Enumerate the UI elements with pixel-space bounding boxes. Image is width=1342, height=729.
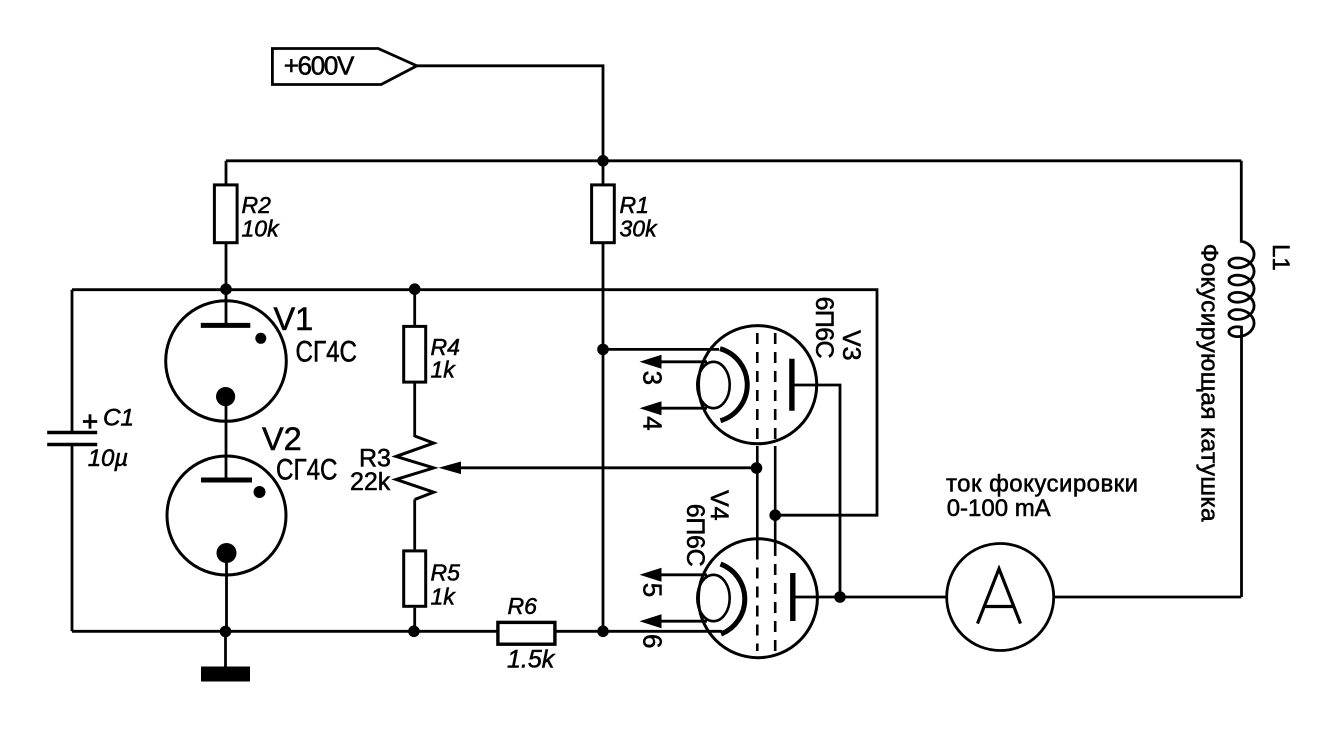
svg-text:V1: V1 bbox=[274, 301, 314, 337]
svg-text:СГ4С: СГ4С bbox=[276, 454, 338, 487]
svg-text:V3: V3 bbox=[837, 330, 865, 361]
svg-text:4: 4 bbox=[638, 416, 668, 430]
svg-text:0-100 mA: 0-100 mA bbox=[947, 495, 1051, 522]
svg-text:L1: L1 bbox=[1267, 244, 1294, 271]
svg-text:СГ4С: СГ4С bbox=[296, 336, 358, 369]
svg-text:1.5k: 1.5k bbox=[507, 646, 556, 674]
svg-text:5: 5 bbox=[638, 583, 668, 597]
svg-text:6П6С: 6П6С bbox=[810, 297, 838, 359]
svg-text:C1: C1 bbox=[103, 404, 134, 431]
svg-text:1k: 1k bbox=[431, 584, 457, 610]
svg-text:10µ: 10µ bbox=[88, 445, 129, 472]
svg-text:6П6С: 6П6С bbox=[681, 504, 709, 567]
svg-text:R2: R2 bbox=[242, 192, 272, 218]
svg-text:R5: R5 bbox=[431, 560, 461, 586]
svg-text:Фокусирующая катушка: Фокусирующая катушка bbox=[1196, 244, 1223, 522]
svg-text:22k: 22k bbox=[350, 468, 391, 496]
svg-text:3: 3 bbox=[638, 371, 668, 385]
svg-text:V2: V2 bbox=[262, 421, 302, 457]
svg-text:R1: R1 bbox=[620, 192, 649, 218]
svg-text:6: 6 bbox=[638, 634, 668, 648]
svg-text:+600V: +600V bbox=[284, 51, 355, 81]
svg-text:R6: R6 bbox=[508, 593, 538, 619]
svg-text:ток фокусировки: ток фокусировки bbox=[946, 471, 1138, 498]
svg-text:30k: 30k bbox=[620, 216, 659, 242]
svg-text:1k: 1k bbox=[431, 357, 457, 383]
svg-text:10k: 10k bbox=[242, 216, 281, 242]
